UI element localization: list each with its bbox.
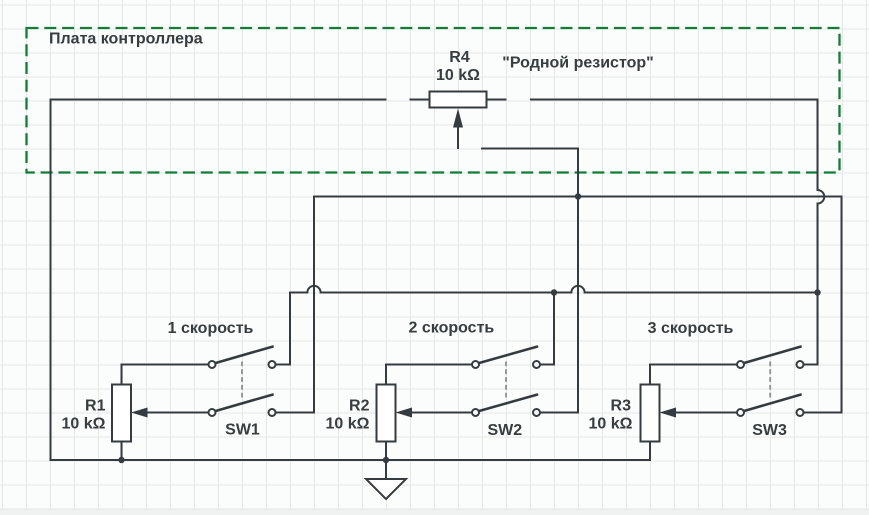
svg-text:2 скорость: 2 скорость xyxy=(409,320,495,337)
svg-text:SW3: SW3 xyxy=(752,422,787,439)
svg-text:SW1: SW1 xyxy=(225,422,260,439)
svg-text:10 kΩ: 10 kΩ xyxy=(62,416,106,433)
svg-text:Плата контроллера: Плата контроллера xyxy=(49,31,203,48)
svg-text:3 скорость: 3 скорость xyxy=(648,320,734,337)
svg-text:R2: R2 xyxy=(349,398,370,415)
svg-text:1 скорость: 1 скорость xyxy=(168,320,254,337)
svg-text:R3: R3 xyxy=(611,398,632,415)
svg-text:SW2: SW2 xyxy=(487,422,522,439)
svg-text:10 kΩ: 10 kΩ xyxy=(326,416,370,433)
svg-text:R1: R1 xyxy=(85,398,106,415)
svg-text:"Родной резистор": "Родной резистор" xyxy=(502,55,653,72)
svg-text:10 kΩ: 10 kΩ xyxy=(436,67,480,84)
svg-text:10 kΩ: 10 kΩ xyxy=(589,416,633,433)
svg-text:R4: R4 xyxy=(449,49,470,66)
